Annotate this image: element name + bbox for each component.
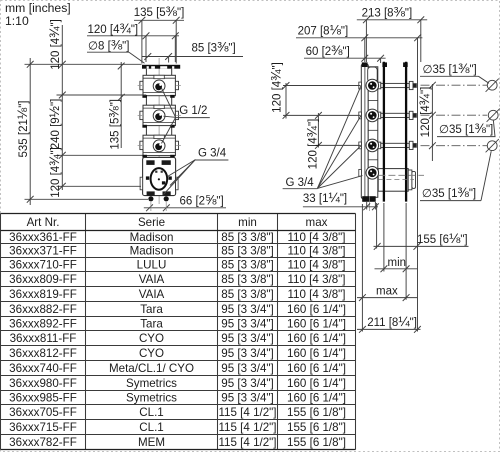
- svg-text:VAIA: VAIA: [139, 288, 165, 301]
- dimension 120 side left lower: [317, 113, 319, 148]
- svg-text:66 [2⅝"]: 66 [2⅝"]: [180, 192, 224, 207]
- svg-text:213 [8⅜"]: 213 [8⅜"]: [362, 5, 413, 20]
- svg-text:85 [3 3/8"]: 85 [3 3/8"]: [221, 259, 273, 272]
- dimension 60: [304, 57, 386, 59]
- svg-text:160 [6 1/4"]: 160 [6 1/4"]: [287, 377, 346, 390]
- svg-text:Tara: Tara: [140, 318, 163, 331]
- svg-text:211 [8¼"]: 211 [8¼"]: [367, 314, 417, 329]
- svg-text:Meta/CL.1/ CYO: Meta/CL.1/ CYO: [109, 362, 194, 375]
- svg-text:36xxx809-FF: 36xxx809-FF: [9, 273, 77, 286]
- svg-text:95 [3 3/4"]: 95 [3 3/4"]: [221, 303, 273, 316]
- svg-text:36xxx705-FF: 36xxx705-FF: [9, 406, 77, 419]
- svg-text:Madison: Madison: [130, 245, 174, 258]
- side view valve body column: [368, 67, 378, 198]
- svg-text:min: min: [238, 216, 257, 229]
- svg-text:36xxx710-FF: 36xxx710-FF: [9, 259, 77, 272]
- dimension 535 overall height: [29, 58, 31, 205]
- svg-text:110 [4 3/8"]: 110 [4 3/8"]: [287, 231, 345, 244]
- svg-text:115 [4 1/2"]: 115 [4 1/2"]: [218, 406, 276, 419]
- front view centerline: [158, 58, 160, 204]
- svg-text:∅8 [⅜"]: ∅8 [⅜"]: [88, 38, 129, 53]
- side view mounting plate: [361, 64, 368, 198]
- dimension diameter 8 hole leader: [87, 51, 129, 53]
- svg-text:36xxx985-FF: 36xxx985-FF: [9, 392, 77, 405]
- dimension 33: [303, 206, 378, 208]
- svg-text:33 [1¼"]: 33 [1¼"]: [303, 190, 347, 205]
- front view body necks: [145, 69, 147, 76]
- svg-text:Symetrics: Symetrics: [126, 377, 177, 390]
- svg-text:535 [21⅛"]: 535 [21⅛"]: [15, 101, 30, 158]
- dimension 155: [374, 245, 469, 247]
- svg-text:120 [4¾"]: 120 [4¾"]: [268, 62, 283, 113]
- svg-text:110 [4 3/8"]: 110 [4 3/8"]: [287, 259, 345, 272]
- dimension diameter 35 #2: [437, 136, 496, 138]
- svg-text:36xxx811-FF: 36xxx811-FF: [10, 332, 77, 345]
- svg-text:∅35 [1⅜"]: ∅35 [1⅜"]: [422, 185, 476, 200]
- diameter 35 circles: [487, 80, 497, 90]
- svg-text:120 [4¾"]: 120 [4¾"]: [47, 147, 62, 198]
- svg-text:36xxx715-FF: 36xxx715-FF: [9, 421, 77, 434]
- svg-text:mm [inches]: mm [inches]: [5, 1, 71, 15]
- side ports G 3/4: [359, 82, 362, 89]
- svg-text:max: max: [306, 216, 328, 229]
- dimension 213: [357, 19, 427, 21]
- svg-text:95 [3 3/4"]: 95 [3 3/4"]: [221, 377, 273, 390]
- svg-text:115 [4 1/2"]: 115 [4 1/2"]: [218, 421, 276, 434]
- svg-text:Serie: Serie: [138, 216, 165, 229]
- svg-text:G 1/2: G 1/2: [179, 105, 207, 117]
- table grid: [1, 213, 356, 215]
- plate foot: [362, 196, 376, 202]
- dimension 135 inner left: [120, 62, 122, 148]
- dimension 207: [296, 37, 422, 39]
- front view bottom module: [143, 157, 176, 195]
- svg-text:min: min: [388, 257, 407, 269]
- svg-text:240 [9½"]: 240 [9½"]: [47, 99, 62, 150]
- svg-text:∅35 [1⅜"]: ∅35 [1⅜"]: [423, 61, 477, 76]
- svg-text:120 [4¾"]: 120 [4¾"]: [417, 87, 432, 138]
- svg-text:CL.1: CL.1: [139, 421, 164, 434]
- svg-text:Tara: Tara: [140, 303, 163, 316]
- svg-text:155 [6⅛"]: 155 [6⅛"]: [417, 231, 468, 246]
- svg-text:36xxx371-FF: 36xxx371-FF: [9, 245, 77, 258]
- dimension 120 side left upper: [285, 83, 287, 119]
- svg-text:CYO: CYO: [139, 332, 164, 345]
- svg-text:160 [6 1/4"]: 160 [6 1/4"]: [287, 392, 346, 405]
- svg-text:160 [6 1/4"]: 160 [6 1/4"]: [287, 347, 346, 360]
- top anchor blocks: [362, 62, 368, 67]
- svg-text:155 [6 1/8"]: 155 [6 1/8"]: [287, 406, 346, 419]
- svg-text:110 [4 3/8"]: 110 [4 3/8"]: [287, 245, 345, 258]
- svg-text:MEM: MEM: [138, 436, 165, 449]
- svg-text:160 [6 1/4"]: 160 [6 1/4"]: [287, 362, 346, 375]
- svg-text:36xxx980-FF: 36xxx980-FF: [9, 377, 77, 390]
- svg-text:120 [4¾"]: 120 [4¾"]: [305, 119, 320, 170]
- svg-text:36xxx819-FF: 36xxx819-FF: [9, 288, 77, 301]
- svg-text:G 3/4: G 3/4: [198, 148, 227, 160]
- svg-text:∅35 [1⅜"]: ∅35 [1⅜"]: [439, 121, 493, 136]
- svg-text:160 [6 1/4"]: 160 [6 1/4"]: [287, 303, 346, 316]
- dimension 211: [357, 328, 421, 330]
- dimension chain 120/240/120 left: [61, 25, 63, 190]
- svg-text:Madison: Madison: [130, 231, 174, 244]
- dimension diameter 35 #3: [420, 200, 481, 202]
- svg-text:36xxx812-FF: 36xxx812-FF: [9, 347, 77, 360]
- dimension 120 side right: [431, 84, 433, 161]
- wall line 2 (max): [405, 62, 407, 202]
- dimension max: [357, 297, 418, 299]
- svg-text:85 [3⅜"]: 85 [3⅜"]: [192, 40, 236, 55]
- front view top cap: [142, 65, 180, 69]
- svg-text:95 [3 3/4"]: 95 [3 3/4"]: [221, 332, 273, 345]
- dimension 85 top: [142, 56, 244, 58]
- side view bottom cylinder: [378, 169, 408, 192]
- svg-text:Symetrics: Symetrics: [126, 392, 177, 405]
- svg-text:LULU: LULU: [137, 259, 167, 272]
- svg-text:max: max: [376, 286, 398, 298]
- svg-text:CYO: CYO: [139, 347, 164, 360]
- svg-text:CL.1: CL.1: [139, 406, 164, 419]
- svg-text:160 [6 1/4"]: 160 [6 1/4"]: [287, 332, 346, 345]
- svg-text:115 [4 1/2"]: 115 [4 1/2"]: [218, 436, 276, 449]
- svg-text:85 [3 3/8"]: 85 [3 3/8"]: [221, 231, 273, 244]
- bottom connection feet G 3/4: [148, 196, 153, 201]
- svg-text:36xxx892-FF: 36xxx892-FF: [9, 318, 77, 331]
- bottom oval port: [151, 168, 168, 190]
- svg-text:135 [5⅜"]: 135 [5⅜"]: [134, 4, 185, 19]
- svg-text:95 [3 3/4"]: 95 [3 3/4"]: [221, 392, 273, 405]
- svg-text:110 [4 3/8"]: 110 [4 3/8"]: [287, 273, 345, 286]
- svg-text:36xxx740-FF: 36xxx740-FF: [9, 362, 77, 375]
- dimension min: [375, 268, 418, 270]
- side view top cartridge: [368, 67, 378, 82]
- svg-text:160 [6 1/4"]: 160 [6 1/4"]: [287, 318, 346, 331]
- svg-text:155 [6 1/8"]: 155 [6 1/8"]: [287, 421, 346, 434]
- dimension diameter 35 #1: [420, 75, 479, 77]
- svg-text:1:10: 1:10: [5, 14, 29, 28]
- svg-text:85 [3 3/8"]: 85 [3 3/8"]: [221, 273, 273, 286]
- pipe centerlines dash-dot: [421, 84, 488, 86]
- svg-text:60 [2⅜"]: 60 [2⅜"]: [306, 43, 350, 58]
- svg-text:85 [3 3/8"]: 85 [3 3/8"]: [221, 245, 273, 258]
- svg-text:120 [4¾"]: 120 [4¾"]: [88, 21, 139, 36]
- svg-text:36xxx782-FF: 36xxx782-FF: [9, 436, 77, 449]
- wall line 1 (min): [383, 62, 385, 202]
- svg-text:155 [6 1/8"]: 155 [6 1/8"]: [287, 436, 346, 449]
- svg-text:Art Nr.: Art Nr.: [27, 216, 60, 229]
- svg-text:95 [3 3/4"]: 95 [3 3/4"]: [221, 347, 273, 360]
- svg-text:95 [3 3/4"]: 95 [3 3/4"]: [221, 318, 273, 331]
- svg-text:120 [4¾"]: 120 [4¾"]: [47, 19, 62, 70]
- svg-text:95 [3 3/4"]: 95 [3 3/4"]: [221, 362, 273, 375]
- svg-text:85 [3 3/8"]: 85 [3 3/8"]: [221, 288, 273, 301]
- dimension 66 bottom: [144, 207, 226, 209]
- svg-text:135 [5⅜"]: 135 [5⅜"]: [106, 99, 121, 150]
- svg-text:36xxx361-FF: 36xxx361-FF: [9, 231, 77, 244]
- dimension 120 top: [87, 35, 179, 37]
- svg-text:VAIA: VAIA: [139, 273, 165, 286]
- dimension 135 top width: [134, 19, 184, 21]
- svg-text:110 [4 3/8"]: 110 [4 3/8"]: [287, 288, 345, 301]
- svg-text:36xxx882-FF: 36xxx882-FF: [9, 303, 77, 316]
- svg-text:207 [8⅛"]: 207 [8⅛"]: [298, 22, 349, 37]
- svg-text:G 3/4: G 3/4: [286, 177, 315, 189]
